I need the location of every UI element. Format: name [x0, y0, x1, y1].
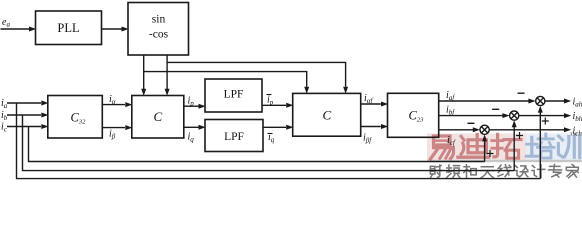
wire upper branch horizontal to second C [167, 62, 346, 86]
svg-text:-cos: -cos [149, 29, 169, 41]
wire ibh output [519, 115, 564, 117]
minus sign middle summer [492, 108, 499, 110]
wire i-alpha C32 to C [102, 104, 125, 106]
watermark char 拓 [492, 134, 521, 158]
wire iah output [545, 100, 564, 102]
wire ea input [1, 28, 30, 30]
summer circle top [536, 96, 545, 105]
wire i-alpha-f C2 to C23 [361, 103, 381, 105]
small char 线 [498, 165, 511, 177]
wire icf C23 to left summer [439, 129, 473, 131]
wire iq-bar LPF to C2 [263, 126, 286, 128]
block C (first) [132, 96, 184, 139]
watermark char 培 [526, 134, 554, 158]
watermark char 易 [431, 136, 454, 159]
summer circle left [480, 125, 489, 134]
wire lower branch horizontal to second C [144, 72, 307, 87]
wire ia input [7, 102, 41, 104]
small char 设 [515, 166, 528, 177]
minus sign left summer [468, 122, 475, 124]
wire ic feedback tap [29, 127, 485, 162]
watermark gray underline bar [427, 160, 582, 162]
svg-text:PLL: PLL [57, 21, 79, 35]
watermark small gray text 射频和天线设计专家 [430, 165, 578, 178]
wire i-beta C32 to C [102, 127, 125, 129]
wire up into top summer [539, 112, 541, 178]
block LPF (bottom) [205, 120, 263, 152]
wire ip C to LPF [184, 105, 199, 107]
plus sign left summer [487, 150, 494, 157]
wire ibf C23 to middle summer [439, 115, 503, 117]
wire ib input [7, 114, 41, 116]
wire ib feedback tap [23, 115, 515, 171]
wire ia feedback tap [17, 103, 541, 179]
wire PLL to sincos [102, 28, 122, 30]
small char 计 [532, 165, 545, 178]
watermark blue background [526, 134, 582, 162]
svg-text:sin: sin [152, 14, 166, 26]
minus sign top summer [518, 92, 525, 94]
small char 专 [549, 165, 562, 178]
block sin-cos [128, 3, 189, 56]
wire i-beta-f C2 to C23 [361, 126, 381, 128]
svg-text:LPF: LPF [224, 89, 244, 101]
plus sign middle summer [516, 132, 523, 139]
wire sincos down-right branch vertical [166, 55, 168, 89]
svg-text:C: C [154, 109, 163, 124]
small char 频 [447, 165, 460, 177]
small char 天 [481, 167, 495, 178]
small char 射 [430, 165, 442, 178]
wire ip-bar LPF to C2 [262, 104, 286, 106]
block C (second) [293, 93, 361, 136]
svg-text:C: C [323, 108, 332, 123]
wire sincos down-left branch vertical [143, 55, 145, 89]
summer circle middle [510, 111, 519, 120]
block PLL [36, 11, 102, 45]
block LPF (top) [205, 79, 262, 112]
wire iq C to LPF [184, 126, 199, 128]
plus sign top summer [542, 118, 549, 125]
wire ic input [7, 126, 41, 128]
wire ich output [489, 129, 564, 131]
watermark pink background [427, 134, 526, 162]
block C23 [388, 93, 439, 137]
svg-text:LPF: LPF [224, 131, 244, 143]
wire up into middle summer [513, 127, 515, 171]
small char 家 [566, 165, 578, 178]
wire iaf C23 to top summer [439, 100, 529, 102]
watermark char 迪 [458, 134, 489, 157]
small char 和 [464, 165, 476, 178]
watermark char 训 [558, 136, 579, 158]
wire up into left summer [484, 141, 486, 161]
block C32 [48, 96, 103, 139]
